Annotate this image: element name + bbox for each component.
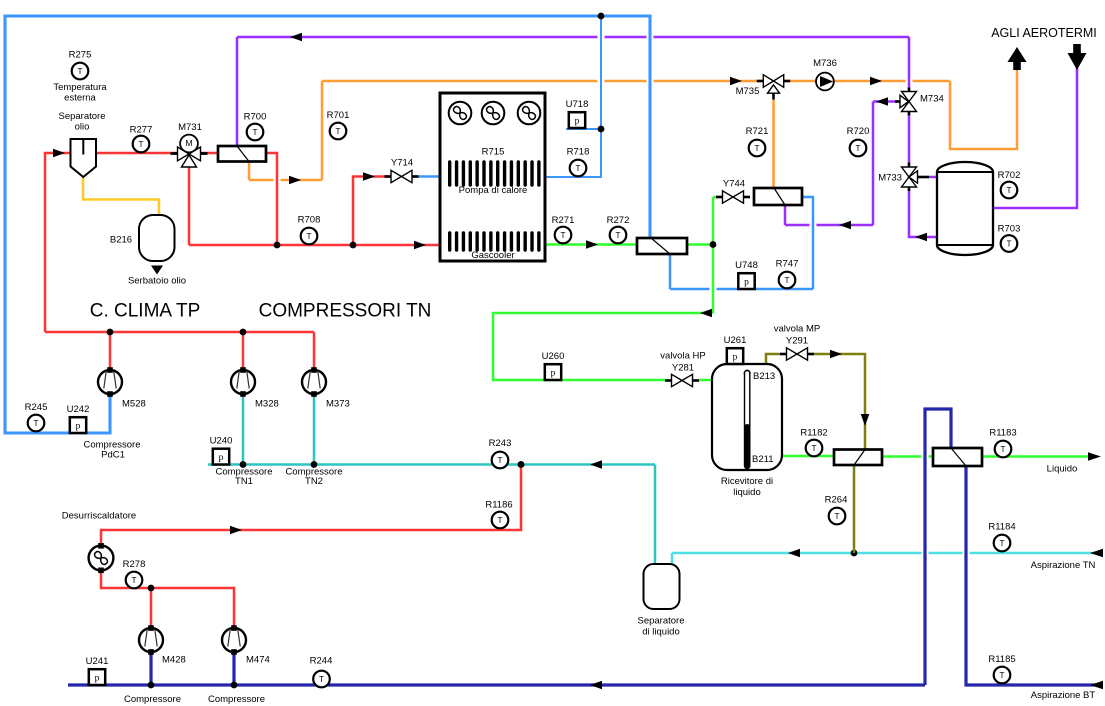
svg-text:U260: U260 [542,351,565,362]
svg-text:T: T [615,231,620,240]
sensor R264 [829,508,846,525]
svg-text:T: T [1006,240,1011,249]
pipe red: branch up to Y714 valve [353,177,390,246]
sensor R701 [330,123,347,140]
pipe purple: R700 exchanger top - up - long run y37 - down to M734 [236,37,239,146]
svg-text:U242: U242 [67,404,90,415]
svg-text:T: T [855,144,860,153]
svg-text:R703: R703 [998,224,1021,235]
svg-text:U748: U748 [735,260,758,271]
pressure sensor U242 [70,417,86,433]
flow arrow red gascooler feed [414,241,426,250]
svg-text:Y714: Y714 [391,158,413,169]
svg-text:T: T [306,232,311,241]
heat exchanger R1182 subcooler [834,450,882,466]
svg-text:B211: B211 [752,454,773,465]
flow arrow purple into Y744 exchanger [839,221,851,230]
pressure sensor U241 [89,669,105,685]
arrow black up AGLI AEROTERMI supply [1008,47,1027,62]
svg-text:T: T [335,127,340,136]
svg-text:Serbatoio olio: Serbatoio olio [128,276,186,287]
pipe navy Aspirazione BT: bottom header [68,683,925,686]
flow arrow red desurriscaldatore line [230,526,242,535]
pipe cyan Aspirazione TN: separator top to right edge [671,553,674,564]
svg-text:R1182: R1182 [800,428,827,439]
svg-text:R701: R701 [327,110,350,121]
pipe red: M731 bottom stem down [188,167,191,245]
heat exchanger R700 [218,146,266,162]
svg-text:TN1: TN1 [235,476,253,487]
valve Y744 [716,196,723,199]
sensor R275 Temperatura esterna [72,63,89,80]
pipe red: oil circuit inlet to Separatore olio [45,153,71,332]
pipe green liquid line: receiver - R1182 exchanger - R1183 exchanger - Liquido out [781,455,834,458]
svg-text:T: T [497,516,502,525]
svg-text:T: T [319,675,324,684]
pipe teal: M328 drop [242,396,245,465]
svg-text:R272: R272 [607,215,630,226]
svg-text:R715: R715 [482,147,505,158]
flow arrow red into separator [53,149,65,158]
svg-text:R1186: R1186 [485,500,512,511]
svg-text:Pompa di calore: Pompa di calore [459,185,528,196]
pipe red: gascooler feed line [189,244,440,247]
svg-text:p: p [575,117,580,127]
svg-text:R243: R243 [489,438,512,449]
pressure sensor U260 [545,364,561,380]
svg-text:T: T [834,512,839,521]
pipe green: Gascooler outlet to R272 exchanger [546,243,637,246]
pipe teal: TN compressors suction header [208,463,655,466]
node junction red M328 [240,329,247,336]
pipe blue stub to U718 pressure sensor [566,128,601,130]
compressor M474 [222,628,246,652]
svg-text:R721: R721 [746,126,769,137]
svg-text:R1184: R1184 [988,522,1015,533]
node junction red M528 [107,329,114,336]
svg-text:M731: M731 [178,122,202,133]
pipe green: riser x713 between Y744 valve and lower run [712,197,715,313]
node junction cyan-olive [851,550,858,557]
pipe red: TP compressors discharge header [45,331,314,334]
sensor R747 [779,272,796,289]
flow arrow navy header [590,681,602,690]
flow arrow purple tank lower [915,233,927,242]
compressor M328 [231,370,255,394]
svg-text:T: T [784,276,789,285]
pressure sensor U718 [569,112,585,128]
pipe navy: riser to R1183 exchanger top [925,409,951,685]
pipe olive: R1182 exchanger bottom down to cyan junction [853,464,856,553]
pipe red: R700 exchanger right - down to gascooler feed [266,153,277,245]
svg-text:R244: R244 [310,656,333,667]
svg-text:Y744: Y744 [723,179,745,190]
svg-text:Desurriscaldatore: Desurriscaldatore [62,511,136,522]
flow arrow green Liquido out [1088,452,1101,461]
svg-text:COMPRESSORI TN: COMPRESSORI TN [259,301,432,322]
valve M734 (3-way vertical) [908,88,911,93]
svg-text:T: T [77,67,82,76]
svg-text:M733: M733 [878,173,902,184]
arrow black down AGLI AEROTERMI return [1073,44,1081,53]
svg-text:Ricevitore di: Ricevitore di [721,476,773,487]
svg-text:M428: M428 [162,655,186,666]
flow arrow cyan right edge [1090,549,1103,558]
svg-text:p: p [219,453,224,463]
svg-text:M373: M373 [326,399,350,410]
svg-text:T: T [999,539,1004,548]
svg-text:R245: R245 [25,402,48,413]
node junction red R700 drop [274,242,281,249]
flow arrow navy right edge [1090,681,1103,690]
pipe blue: R272 exchanger bottom - U748 run - up to Y744 exchanger right [670,288,710,291]
valve M733 (3-way vertical) [908,163,911,168]
pressure sensor U261 [727,348,743,364]
sensor R1186 [492,512,509,529]
liquid separator vessel (Separatore di liquido) [644,564,680,609]
sensor R272 [610,227,627,244]
node junction teal M373 [311,461,318,468]
valve Y714 [385,175,392,178]
svg-text:M: M [185,138,192,148]
svg-text:M735: M735 [736,86,760,97]
svg-text:M474: M474 [246,655,270,666]
node junction blue top [598,13,605,20]
pipe yellow oil line: separator to B216 tank [83,176,159,216]
node junction teal R243 [518,461,525,468]
svg-text:T: T [497,456,502,465]
svg-text:M328: M328 [255,399,279,410]
pipe teal: down to liquid separator [654,465,657,566]
sensor R244 [313,671,330,688]
pressure sensor U748 [738,273,754,289]
svg-text:T: T [811,444,816,453]
svg-text:T: T [131,576,136,585]
svg-text:R1183: R1183 [989,428,1016,439]
pipe blue PdC1 circuit: M528 bottom - left side - top edge - down to R272 exchanger [5,16,650,433]
svg-text:olio: olio [75,122,90,133]
flow arrow cyan Aspirazione TN [788,549,800,558]
svg-text:B216: B216 [110,235,132,246]
pipe orange: M735 to M736 pump [784,80,816,83]
svg-text:esterna: esterna [64,93,96,104]
sensor R720 [850,140,867,157]
pipe red: desurriscaldatore bottom to BT compressors [101,570,234,628]
svg-text:U718: U718 [566,99,589,110]
sensor R271 [555,227,572,244]
flow arrow orange before M735 [730,77,742,86]
svg-text:Liquido: Liquido [1047,464,1078,475]
flow arrow teal header [590,460,602,469]
oil tank B216 (Serbatoio olio) [139,215,175,261]
sensor R277 [133,136,150,153]
svg-text:p: p [95,674,100,684]
svg-text:p: p [733,353,738,363]
svg-text:AGLI AEROTERMI: AGLI AEROTERMI [991,26,1097,40]
pipe orange: R700 exchanger bottom - down - right - up - along y81 to M735 [248,161,251,180]
svg-text:T: T [252,128,257,137]
pipe navy: M474 drop [232,652,235,685]
flow arrow green gascooler outlet [586,240,598,249]
pipe navy: M428 drop [149,652,152,685]
liquid receiver (Ricevitore di liquido) with level gauge B211-B213 [712,364,782,470]
svg-text:R747: R747 [776,259,799,270]
sensor R243 [492,452,509,469]
sensor R718 [570,160,587,177]
sensor R708 [301,228,318,245]
flow arrow orange after M736 [870,77,882,86]
pipe green: lower run to U260 and Y281 valve into receiver [493,313,713,380]
svg-text:Separatore: Separatore [637,616,684,627]
pipe red: M428 riser [150,588,153,628]
flow arrow green return [700,309,712,318]
motor valve M731 (3-way with M actuator) [180,135,198,153]
svg-text:Aspirazione BT: Aspirazione BT [1031,690,1096,701]
flow arrow purple M734 left [876,97,888,106]
svg-text:T: T [754,144,759,153]
sensor R1185 [994,667,1011,684]
svg-text:valvola HP: valvola HP [660,351,705,362]
flow arrow olive down into R1182 exchanger [861,414,870,426]
valve Y281 valvola HP [665,379,672,382]
pipe red: M328 riser [242,332,245,368]
node junction red Y714 branch [350,242,357,249]
pressure sensor U240 [213,449,229,465]
compressor M373 [302,370,326,394]
node junction red M428 riser [148,585,155,592]
svg-text:T: T [999,671,1004,680]
svg-text:U240: U240 [210,436,233,447]
sensor R721 [749,140,766,157]
oil separator vessel (Separatore olio) [71,139,97,177]
svg-text:R702: R702 [998,170,1021,181]
node junction blue U718 [598,126,605,133]
flow arrow olive after Y291 [830,350,842,359]
svg-text:p: p [551,369,556,379]
pipe red: M731 valve to R700 exchanger [201,152,218,155]
svg-text:R720: R720 [847,126,870,137]
heat exchanger R1183 BT subcooler [933,448,982,466]
pipe purple: TP tank right to AGLI AEROTERMI down arrow [992,66,1077,208]
node junction teal M328 [240,461,247,468]
svg-text:T: T [560,231,565,240]
svg-text:TN2: TN2 [305,476,323,487]
svg-text:R1185: R1185 [988,654,1015,665]
svg-text:M734: M734 [920,94,944,105]
heat pump / gascooler unit R715 [440,93,545,261]
svg-text:M528: M528 [122,399,146,410]
svg-text:R718: R718 [567,147,590,158]
pipe navy: R1183 exchanger bottom to BT line right [966,465,1103,685]
sensor R245 [28,415,45,432]
svg-text:C. CLIMA TP: C. CLIMA TP [90,301,201,322]
pipe blue: Y714 valve to heat pump coil [413,175,440,178]
pipe purple: TP tank lower outlet to M733 bottom [909,189,937,237]
valve Y291 valvola MP [780,353,787,356]
pipe orange: M735 bottom stem down to Y744 exchanger [772,99,775,188]
svg-text:p: p [76,422,81,432]
heat exchanger Y744 recuperator [754,188,802,205]
pump M736 [816,73,834,91]
buffer tank TP [937,162,993,255]
svg-text:valvola MP: valvola MP [774,324,820,335]
svg-text:liquido: liquido [733,487,760,498]
svg-text:Separatore: Separatore [58,111,105,122]
svg-text:B213: B213 [753,371,775,382]
pipe blue thin: top tee at x601 down to heat pump outlet [546,16,601,177]
flow arrow red Y714 branch [363,172,375,181]
compressor M428 [139,628,163,652]
node junction navy M474 [231,682,238,689]
svg-text:U261: U261 [724,335,747,346]
pipe red: M373 riser [313,332,316,368]
pipe purple: M733 right port to TP tank upper inlet [929,176,938,179]
svg-text:M736: M736 [813,58,837,69]
pipe teal: M373 drop [313,396,316,465]
pipe orange: M736 to riser and AGLI AEROTERMI up arrow [834,80,906,83]
pipe red: Separatore olio to M731 valve [96,152,177,155]
svg-text:PdC1: PdC1 [101,450,125,461]
svg-text:p: p [744,278,749,288]
sensor R703 [1001,235,1018,252]
svg-text:U241: U241 [86,656,109,667]
pipe purple: M734 bottom to M733 top [908,113,911,164]
svg-text:Y281: Y281 [672,363,694,374]
node junction navy M428 [148,682,155,689]
svg-text:Y291: Y291 [786,336,808,347]
svg-text:Compressore: Compressore [124,694,181,705]
pipe purple: M734 left port - down - to Y744 exchanger bottom [873,100,897,103]
svg-text:R278: R278 [123,559,146,570]
compressor M528 [98,370,122,394]
svg-text:R700: R700 [244,112,267,123]
svg-text:Temperatura: Temperatura [53,82,107,93]
sensor R278 [126,572,143,589]
flow arrow purple top run [290,33,302,42]
svg-text:di liquido: di liquido [642,627,680,638]
svg-text:R277: R277 [130,125,153,136]
node junction green [710,241,717,248]
sensor R1183 [995,441,1012,458]
valve M735 (3-way) [757,80,764,83]
svg-text:T: T [138,140,143,149]
svg-text:Gascooler: Gascooler [471,250,514,261]
node junction red-teal R243 [518,461,525,468]
flow arrow orange lower [289,176,301,185]
svg-text:T: T [33,419,38,428]
pipe red: desurriscaldatore top line to R243 junction [101,465,521,547]
pipe olive: receiver top - Y291 valve - down into R1182 exchanger [766,354,780,364]
pipe red: M528 riser [109,332,112,368]
heat exchanger R272-R718 interstage [637,238,687,254]
svg-text:Aspirazione TN: Aspirazione TN [1031,560,1096,571]
sensor R1182 [806,440,823,457]
svg-text:R275: R275 [69,50,92,61]
svg-text:Compressore: Compressore [208,694,265,705]
svg-text:R264: R264 [825,495,848,506]
pipe green: R272 exchanger to junction node [687,243,713,246]
sensor R702 [1001,182,1018,199]
sensor R1184 [994,535,1011,552]
svg-text:R708: R708 [298,215,321,226]
svg-text:T: T [575,164,580,173]
svg-text:R271: R271 [552,215,575,226]
svg-text:T: T [1006,186,1011,195]
svg-text:T: T [1000,445,1005,454]
